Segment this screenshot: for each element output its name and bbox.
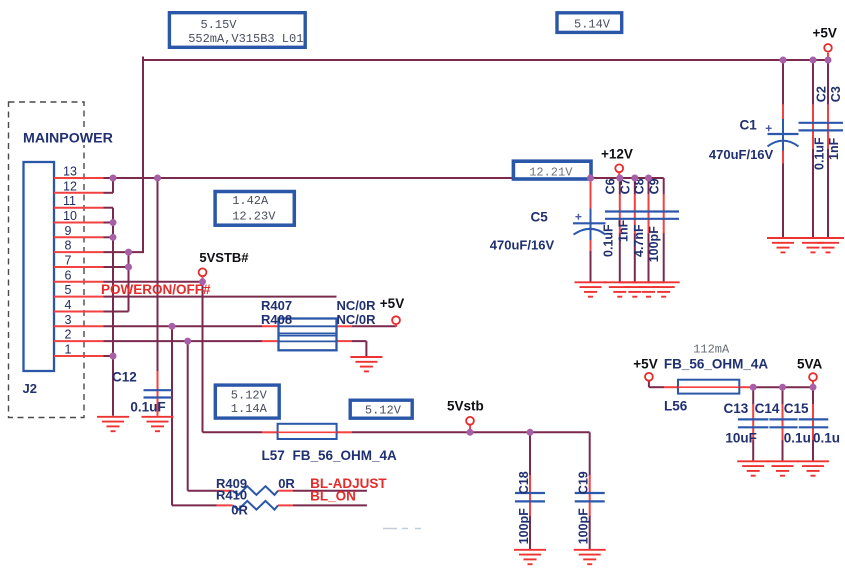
wire 5VA net (L56 to C13/C14/C15) <box>649 381 813 461</box>
svg-text:NC/0R: NC/0R <box>337 298 377 313</box>
wire 5VSTB net (pin 6 down to L57 and C18/C19) <box>104 282 590 549</box>
svg-text:1nF: 1nF <box>827 137 841 160</box>
svg-text:R407: R407 <box>261 298 292 313</box>
connector J2 pin numbers 13..1 <box>63 165 77 357</box>
label MAINPOWER <box>19 129 111 145</box>
connector J2 body <box>24 162 55 371</box>
capacitor C3 <box>827 105 829 149</box>
svg-text:C2: C2 <box>815 86 829 102</box>
svg-text:0.1uF: 0.1uF <box>812 137 826 170</box>
wire C5-C9 lower verticals to ground <box>591 233 664 282</box>
connector J2 pin stubs <box>54 178 104 356</box>
wire pin3 net to R407 and R410 <box>104 326 263 505</box>
svg-text:9: 9 <box>65 224 72 238</box>
wire R407 output to +5V pin <box>352 324 396 326</box>
svg-text:FB_56_OHM_4A: FB_56_OHM_4A <box>293 448 398 463</box>
svg-text:12: 12 <box>63 179 77 193</box>
wire POWERON/OFF# net (pin 5) <box>104 296 337 298</box>
svg-text:5.15V: 5.15V <box>201 18 238 32</box>
ground below C19 <box>574 550 606 564</box>
svg-text:4: 4 <box>65 298 72 312</box>
resistor R409 zigzag <box>217 490 294 492</box>
svg-text:0R: 0R <box>278 476 295 491</box>
ground below C7 <box>619 282 651 296</box>
svg-text:0.1u: 0.1u <box>813 430 840 445</box>
connector J2 dashed enclosure <box>9 102 85 418</box>
voltage box 1.42A / 12.23V <box>215 192 294 226</box>
svg-text:100pF: 100pF <box>647 226 661 262</box>
capacitor C2 <box>812 105 814 149</box>
svg-text:5.12V: 5.12V <box>365 404 402 418</box>
voltage box 5.12V / 1.14A <box>215 385 279 418</box>
svg-text:0R: 0R <box>231 503 248 518</box>
svg-text:6: 6 <box>65 268 72 282</box>
svg-text:470uF/16V: 470uF/16V <box>490 238 555 253</box>
voltage box 12.21V <box>513 161 591 179</box>
faint watermark dashes <box>383 528 421 530</box>
wire BL-ADJUST (R409 right) <box>293 490 367 492</box>
svg-text:C12: C12 <box>112 369 137 384</box>
capacitor C13 <box>752 404 754 440</box>
svg-text:5VA: 5VA <box>797 357 823 372</box>
svg-text:NC/0R: NC/0R <box>337 312 377 327</box>
svg-text:5.12V: 5.12V <box>231 388 268 402</box>
svg-text:4.7nF: 4.7nF <box>632 224 646 257</box>
svg-text:FB_56_OHM_4A: FB_56_OHM_4A <box>664 357 769 372</box>
ground below C5 <box>575 282 607 296</box>
ferrite bead L57 <box>262 431 352 433</box>
capacitor C14 <box>782 404 784 440</box>
plates C6-C9 <box>605 212 679 219</box>
svg-text:+5V: +5V <box>380 296 404 311</box>
ground below C1 <box>767 238 799 252</box>
wire R408 output to ground <box>352 341 366 356</box>
wire +12V rail (pins 13/12 to caps C5-C9) <box>104 178 664 371</box>
ground below C3 <box>812 238 844 252</box>
ferrite bead L56 <box>664 386 750 388</box>
capacitors C6-C9 top stubs <box>620 194 664 233</box>
svg-text:R410: R410 <box>216 488 247 503</box>
svg-text:5VSTB#: 5VSTB# <box>199 250 249 265</box>
ground below C14 <box>767 461 799 475</box>
wire BL_ON (R410 right) <box>293 504 367 506</box>
svg-text:L57: L57 <box>262 448 285 463</box>
svg-text:7: 7 <box>65 254 72 268</box>
svg-text:C18: C18 <box>517 471 531 494</box>
wire +5V net (top rail and drop to pins 8/7/4) <box>104 57 829 312</box>
ground below C18 <box>514 550 546 564</box>
svg-text:0.1uF: 0.1uF <box>602 224 616 257</box>
svg-text:5Vstb: 5Vstb <box>447 398 484 413</box>
svg-text:C13: C13 <box>724 401 749 416</box>
svg-text:100pF: 100pF <box>577 508 591 544</box>
svg-text:1.42A: 1.42A <box>232 194 269 208</box>
svg-text:0.1u: 0.1u <box>784 430 811 445</box>
resistor R410 zigzag <box>217 504 294 506</box>
svg-text:12.23V: 12.23V <box>232 209 276 223</box>
voltage box 5.12V <box>350 400 412 418</box>
svg-text:MAINPOWER: MAINPOWER <box>23 130 113 146</box>
ground below C8 <box>633 282 665 296</box>
voltage box 5.14V <box>557 13 622 33</box>
svg-text:J2: J2 <box>23 381 37 396</box>
ground at R408 <box>350 357 382 371</box>
plates C2/C3 <box>799 123 844 131</box>
svg-text:C6: C6 <box>604 178 618 194</box>
voltage box 5.15V / 552mA <box>169 13 305 48</box>
capacitor C5 electrolytic <box>590 179 592 251</box>
svg-text:12.21V: 12.21V <box>529 165 573 179</box>
capacitor C19 <box>589 475 591 516</box>
svg-text:13: 13 <box>63 165 77 179</box>
svg-text:2: 2 <box>65 328 72 342</box>
svg-text:1: 1 <box>65 343 72 357</box>
svg-text:5.14V: 5.14V <box>574 18 611 32</box>
svg-text:112mA: 112mA <box>693 343 730 357</box>
svg-text:POWERON/OFF#: POWERON/OFF# <box>101 282 211 297</box>
ground below C15 <box>797 461 829 475</box>
svg-text:1nF: 1nF <box>617 219 631 242</box>
svg-text:470uF/16V: 470uF/16V <box>709 147 774 162</box>
svg-text:8: 8 <box>65 239 72 253</box>
svg-text:C1: C1 <box>740 118 758 133</box>
capacitor C15 <box>812 404 814 440</box>
svg-text:+5V: +5V <box>633 357 657 372</box>
svg-text:+5V: +5V <box>813 25 837 40</box>
svg-text:3: 3 <box>65 313 72 327</box>
svg-text:L56: L56 <box>664 398 688 413</box>
svg-text:C5: C5 <box>531 210 549 225</box>
svg-text:100pF: 100pF <box>517 508 531 544</box>
svg-text:+12V: +12V <box>601 146 633 161</box>
svg-text:C3: C3 <box>829 86 843 102</box>
ground below pin1 <box>97 417 129 431</box>
ground below C12 <box>142 417 174 431</box>
resistor R407/R408 pack body <box>279 319 337 351</box>
wire C1/C2/C3 branch verticals <box>783 60 828 237</box>
capacitor C12 <box>157 371 159 416</box>
svg-text:R408: R408 <box>261 312 292 327</box>
ground below C6 <box>604 282 636 296</box>
svg-text:5: 5 <box>65 283 72 297</box>
svg-text:0.1uF: 0.1uF <box>130 400 165 415</box>
ground below C2 <box>797 238 829 252</box>
capacitor C18 <box>529 475 531 516</box>
svg-text:1.14A: 1.14A <box>231 402 268 416</box>
svg-text:10: 10 <box>63 209 77 223</box>
wire GND net (pins 11,10,9,1) <box>104 208 114 416</box>
svg-text:BL_ON: BL_ON <box>310 489 356 504</box>
resistor R407/R408 pack left stubs <box>262 324 396 341</box>
svg-text:552mA,V315B3 L01: 552mA,V315B3 L01 <box>188 32 303 46</box>
svg-text:C15: C15 <box>784 401 809 416</box>
svg-text:11: 11 <box>63 194 76 208</box>
capacitor C1 electrolytic <box>782 104 784 163</box>
wire pin2 net to R408 and R409 <box>104 341 263 491</box>
ground below C9 <box>648 282 680 296</box>
ground below C13 <box>737 461 769 475</box>
svg-text:C19: C19 <box>577 471 591 494</box>
svg-text:C14: C14 <box>755 401 780 416</box>
svg-text:10uF: 10uF <box>725 430 757 445</box>
